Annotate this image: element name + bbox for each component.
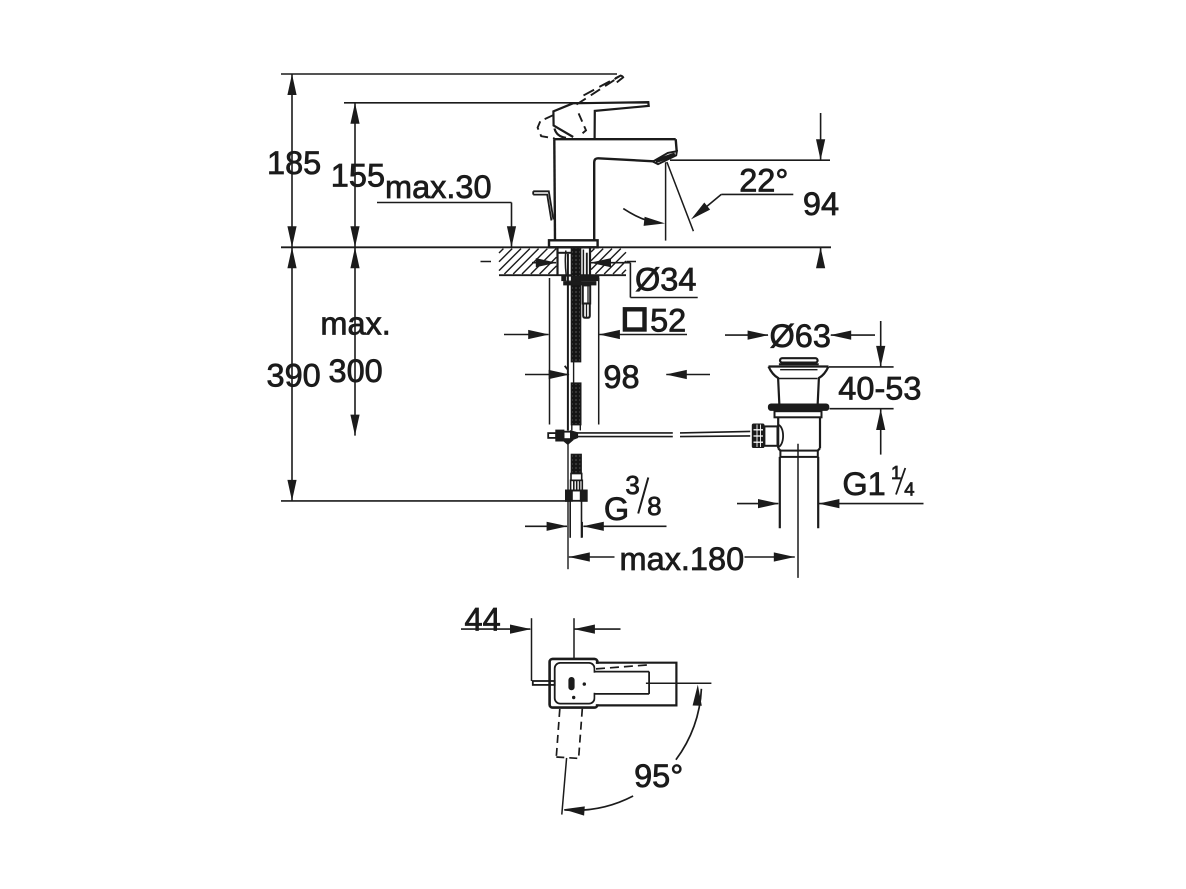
- swing reference line: [562, 758, 567, 815]
- waste body: [778, 418, 820, 457]
- svg-text:94: 94: [803, 186, 839, 222]
- mounting nut: [563, 281, 596, 285]
- dimension 155: [331, 103, 385, 248]
- svg-text:40-53: 40-53: [838, 370, 921, 406]
- svg-text:300: 300: [329, 353, 383, 389]
- counter hatching: [499, 249, 626, 274]
- hose ferrule: [571, 474, 582, 481]
- svg-text:95°: 95°: [634, 758, 683, 794]
- top view dot markers: [583, 682, 586, 685]
- waste plug disc: [780, 358, 818, 362]
- dimension 185: [267, 74, 321, 247]
- svg-text:185: 185: [267, 145, 321, 181]
- dimension square52: [504, 278, 687, 425]
- handle lever (solid): [573, 102, 649, 139]
- top view body: [555, 663, 595, 704]
- svg-text:G1: G1: [842, 466, 885, 502]
- rod tail / max180 extension: [567, 444, 569, 569]
- dimension 22deg leader: [691, 162, 793, 219]
- top view cartridge slot: [568, 677, 574, 690]
- threaded shank (braided): [571, 248, 580, 362]
- dimension 40-53: [829, 321, 921, 455]
- handle raised position (dashed): [538, 75, 624, 138]
- hose inner tube in gap: [573, 362, 575, 383]
- counter bottom line: [499, 274, 626, 276]
- pop-up rod coupling: [548, 431, 577, 444]
- dimension max.180: [569, 541, 795, 577]
- supply hose braid lower: [571, 454, 581, 473]
- swivel arrow: [623, 209, 665, 226]
- pop-up rod lever at faucet: [533, 191, 553, 220]
- waste side port collar: [764, 426, 777, 445]
- top view rod tab: [533, 681, 555, 685]
- faucet body column: [554, 139, 676, 240]
- faucet base plate: [549, 240, 598, 247]
- waste side port arc: [778, 425, 784, 448]
- counter top line: [281, 246, 831, 248]
- svg-text:max.180: max.180: [620, 541, 745, 577]
- dimension 95deg arc: [564, 685, 702, 816]
- dimension G1 1/4: [737, 462, 924, 508]
- drain pull rod: [567, 254, 569, 431]
- svg-text:Ø34: Ø34: [635, 261, 696, 297]
- extension line handle tip (155 reference): [344, 102, 649, 104]
- mounting hole edges: [556, 247, 558, 275]
- waste o-ring seal: [768, 404, 829, 411]
- dimension dia34: [532, 258, 698, 297]
- dimension 390: [267, 247, 571, 501]
- horizontal pop-up rod: [577, 431, 750, 436]
- waste locknut: [775, 411, 822, 417]
- knurled adjuster knob: [752, 424, 765, 449]
- handle boot (solid): [553, 103, 573, 138]
- mounting washer: [561, 276, 599, 281]
- svg-text:155: 155: [331, 158, 385, 194]
- svg-text:max.: max.: [320, 305, 390, 341]
- svg-text:44: 44: [465, 601, 501, 637]
- svg-text:3: 3: [625, 470, 639, 500]
- svg-text:390: 390: [267, 358, 321, 394]
- dimension 94: [670, 113, 839, 268]
- dimension dia63: [725, 318, 875, 354]
- dimension G3/8: [525, 470, 667, 538]
- svg-text:max.30: max.30: [385, 169, 492, 205]
- top view lever grip: [596, 663, 677, 706]
- mounting sleeve: [583, 285, 590, 317]
- counter break mark right: [627, 261, 637, 263]
- waste flange: [769, 367, 829, 404]
- spout aerator: [653, 151, 677, 164]
- dimension max. 300: [320, 247, 390, 435]
- faucet underside in hole: [558, 250, 587, 276]
- top view lever dashed edge: [596, 665, 648, 669]
- top view lever opening patches: [595, 664, 599, 704]
- supply hose braid upper: [571, 383, 581, 425]
- top view lever neck: [595, 672, 650, 694]
- hose end stubs: [569, 501, 571, 538]
- dimension 98: [525, 359, 710, 395]
- top view escutcheon: [550, 659, 598, 708]
- top view centerline: [646, 682, 712, 684]
- svg-text:Ø63: Ø63: [770, 318, 831, 354]
- svg-text:22°: 22°: [739, 162, 788, 198]
- svg-text:98: 98: [603, 359, 639, 395]
- counter break mark left: [481, 261, 492, 263]
- water stream reference: [666, 162, 694, 241]
- svg-text:4: 4: [904, 478, 914, 499]
- svg-text:8: 8: [647, 491, 661, 521]
- handle swung position (dashed): [556, 709, 582, 759]
- hose nipple ribs: [571, 480, 583, 490]
- waste plug rod centerline: [797, 444, 799, 578]
- waste tailpipe: [780, 457, 818, 528]
- dimension 44: [461, 601, 621, 681]
- extension line top (185 reference): [281, 73, 617, 75]
- svg-text:52: 52: [650, 303, 686, 339]
- G3/8 nut: [566, 491, 587, 501]
- svg-text:1: 1: [891, 462, 901, 483]
- dimension max.30: [377, 169, 516, 247]
